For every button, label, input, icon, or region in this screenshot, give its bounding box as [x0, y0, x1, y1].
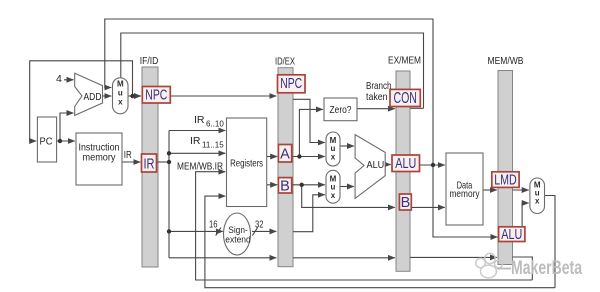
svg-text:IR: IR [194, 114, 205, 126]
svg-text:taken: taken [366, 91, 388, 103]
svg-text:IR: IR [190, 135, 201, 147]
svg-text:IR: IR [144, 157, 155, 173]
svg-text:32: 32 [255, 219, 264, 231]
svg-text:memory: memory [83, 152, 117, 164]
svg-text:ALU: ALU [367, 159, 385, 171]
svg-text:11..15: 11..15 [202, 141, 224, 150]
svg-text:ALU: ALU [501, 227, 522, 243]
svg-text:x: x [331, 153, 336, 162]
svg-text:MEM/WB: MEM/WB [488, 55, 524, 67]
svg-text:IR: IR [124, 149, 132, 161]
svg-text:6..10: 6..10 [206, 120, 224, 129]
svg-text:NPC: NPC [280, 76, 302, 92]
svg-text:M: M [117, 80, 124, 89]
svg-text:ID/EX: ID/EX [275, 56, 295, 68]
svg-text:Registers: Registers [230, 158, 263, 170]
svg-text:NPC: NPC [145, 88, 167, 104]
svg-text:x: x [331, 191, 336, 200]
svg-text:B: B [401, 195, 411, 211]
svg-text:EX/MEM: EX/MEM [388, 55, 421, 67]
svg-text:MEM/WB.IR: MEM/WB.IR [177, 161, 223, 173]
svg-text:memory: memory [450, 188, 481, 200]
svg-text:LMD: LMD [494, 173, 517, 189]
svg-text:Zero?: Zero? [330, 104, 352, 116]
svg-text:ADD: ADD [84, 91, 102, 103]
svg-text:B: B [280, 179, 290, 195]
svg-text:ALU: ALU [395, 156, 416, 172]
svg-text:—MakerBeta: —MakerBeta [497, 257, 582, 279]
svg-text:PC: PC [40, 136, 53, 148]
svg-text:CON: CON [393, 90, 417, 107]
svg-text:x: x [535, 197, 540, 206]
svg-text:16: 16 [209, 219, 218, 231]
svg-text:x: x [118, 98, 123, 107]
svg-text:extend: extend [225, 235, 251, 246]
svg-text:IF/ID: IF/ID [140, 55, 159, 67]
svg-text:A: A [280, 147, 290, 163]
svg-text:4: 4 [56, 73, 62, 85]
svg-text:u: u [118, 89, 123, 98]
